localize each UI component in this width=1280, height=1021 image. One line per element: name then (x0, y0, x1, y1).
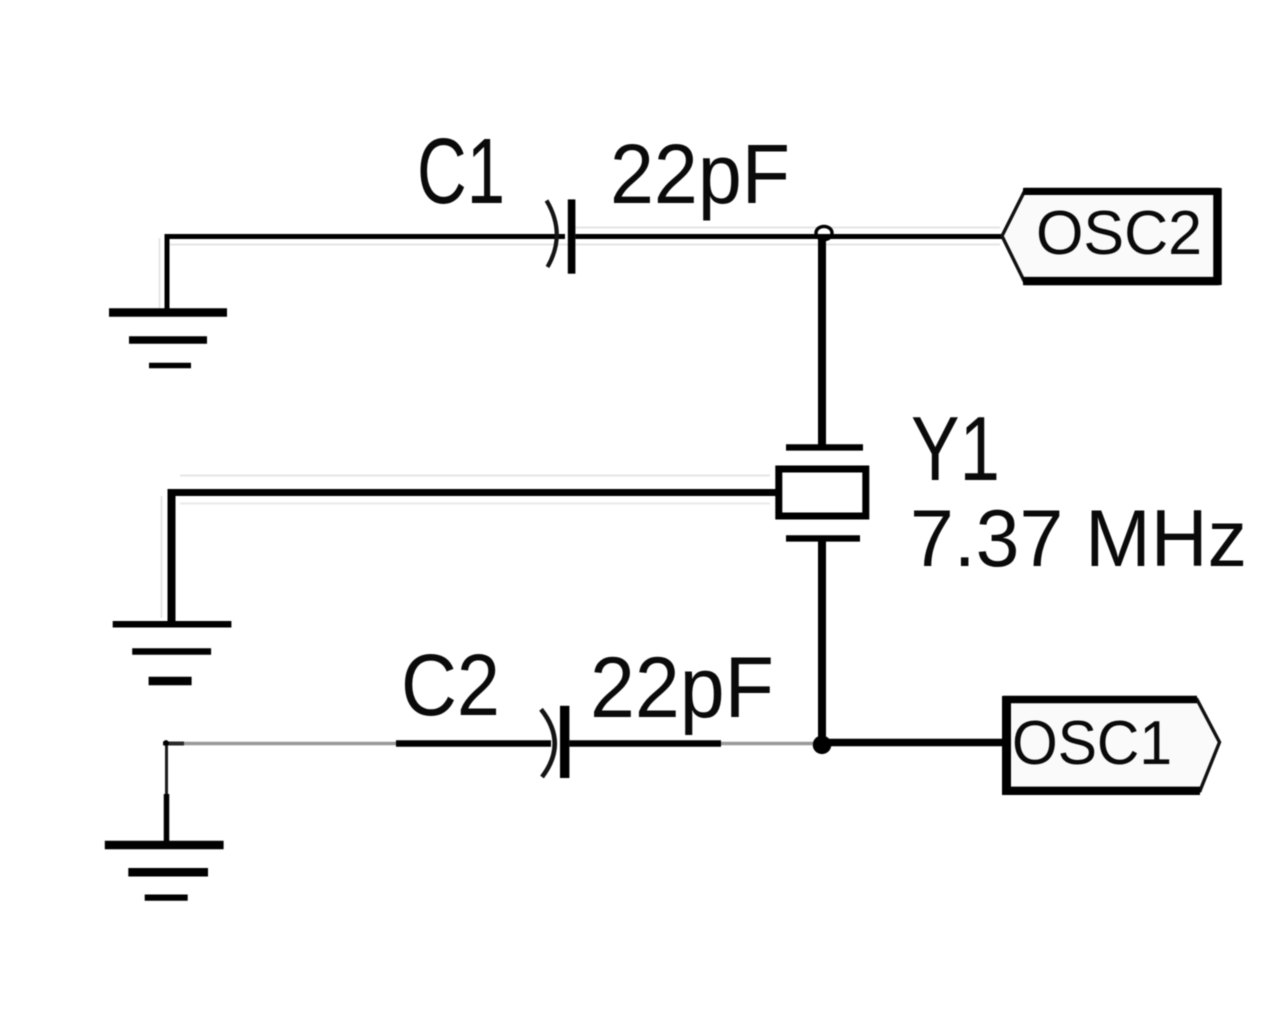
ghost scan line above top wire (575, 227, 1000, 229)
capacitor C1 (547, 199, 576, 273)
wire: top node down to crystal Y1 (818, 234, 826, 447)
wire: Y1 bottom to OSC1 node (818, 538, 826, 746)
wire: C2 left lead (black) (396, 740, 551, 747)
ground GND3 (105, 845, 224, 898)
bottom plate (786, 535, 860, 541)
svg-text:OSC2: OSC2 (1036, 199, 1202, 268)
curved plate (541, 709, 555, 777)
svg-text:22pF: 22pF (590, 640, 774, 736)
svg-text:Y1: Y1 (911, 399, 1000, 500)
ground GND2 (113, 624, 232, 681)
wire: GND3 vertical (lower part) (164, 794, 170, 844)
svg-text:OSC1: OSC1 (1012, 709, 1172, 778)
wire: C2 right lead (black) (569, 740, 721, 747)
net flag OSC2 (1002, 188, 1218, 285)
node: open junction bubble on OSC2 net (816, 226, 832, 239)
wire: middle-left vertical to GND2 (168, 489, 176, 623)
junction dot at OSC1 node (813, 736, 832, 755)
net flag OSC1 (1003, 696, 1220, 795)
curved plate (547, 201, 557, 268)
wire: gray segment C2 to OSC1 node (721, 742, 813, 746)
wire: middle horizontal (left stub to Y1) (168, 489, 776, 496)
ghost scan line below top wire (170, 244, 1000, 246)
ground GND1 (109, 313, 227, 366)
crystal Y1 (779, 447, 866, 538)
wire: GND3 vertical (thin upper part) (165, 741, 168, 796)
svg-text:C1: C1 (417, 119, 505, 223)
wire: top-left vertical drop to GND1 (165, 234, 170, 312)
ghost vertical near GND2 corner (161, 496, 163, 618)
ghost vertical near GND1 corner (159, 238, 161, 308)
straight plate (568, 199, 576, 273)
svg-text:22pF: 22pF (610, 127, 790, 221)
wire: gray segment GND3 to C2 (163, 742, 398, 746)
svg-text:7.37 MHz: 7.37 MHz (910, 494, 1247, 584)
wire: top-left horizontal (GND1 to C1) (165, 234, 566, 239)
wire: C1 to OSC2 node (575, 234, 1002, 239)
wire: OSC1 node to flag (827, 739, 1004, 747)
junction nub at GND3 corner (163, 740, 184, 746)
ghost scan lines around middle wire (180, 476, 770, 504)
svg-text:C2: C2 (401, 637, 500, 734)
straight plate (560, 706, 569, 778)
top plate (786, 444, 863, 450)
body rectangle (779, 469, 866, 516)
capacitor C2 (541, 706, 569, 778)
